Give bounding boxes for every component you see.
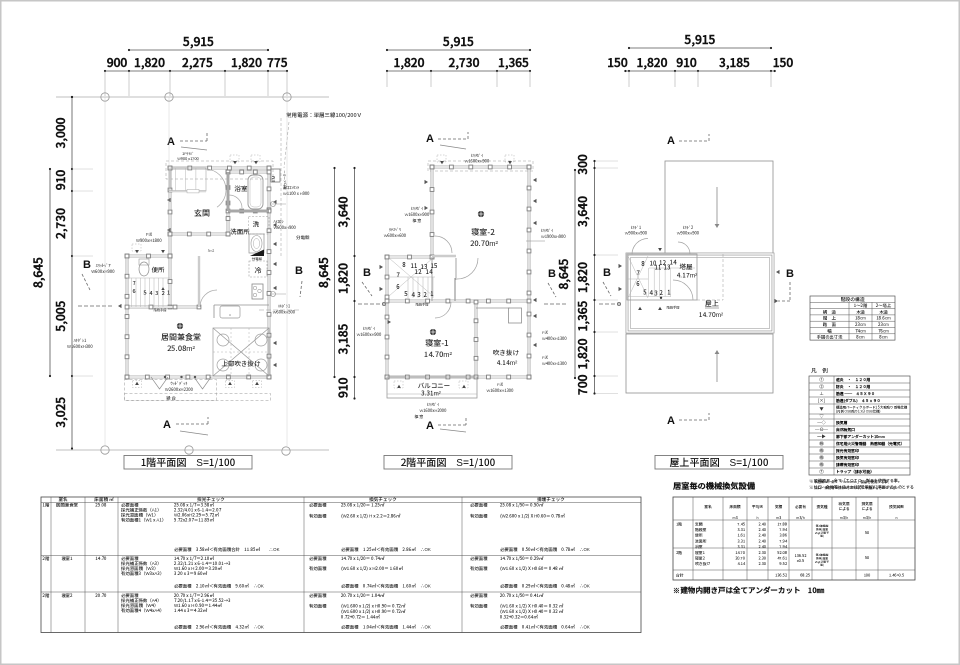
plan1 bath door arc bbox=[229, 195, 242, 208]
plan1 bath tub bbox=[248, 175, 263, 209]
svg-text:遮炎 ・ １２０用: 遮炎 ・ １２０用 bbox=[835, 377, 870, 383]
svg-text:8cm: 8cm bbox=[879, 335, 888, 341]
svg-text:必要面積: 必要面積 bbox=[470, 502, 488, 509]
svg-text:▲: ▲ bbox=[638, 306, 642, 312]
plan1 stair upper bbox=[170, 168, 206, 191]
svg-text:m3: m3 bbox=[732, 516, 737, 521]
svg-text:14.70m²: 14.70m² bbox=[699, 309, 724, 319]
svg-text:居室毎の機械換気設備: 居室毎の機械換気設備 bbox=[672, 480, 756, 492]
plan3 left dim stubs bbox=[596, 160, 619, 162]
svg-text:有効面積: 有効面積 bbox=[470, 604, 488, 610]
svg-text:6: 6 bbox=[636, 279, 640, 288]
svg-text:洗面所: 洗面所 bbox=[694, 538, 707, 544]
svg-text:必要面積 2.10㎡＜有効面積 9.60㎡ ∴OK: 必要面積 2.10㎡＜有効面積 9.60㎡ ∴OK bbox=[174, 583, 264, 590]
svg-text:B: B bbox=[548, 265, 556, 281]
svg-text:9.52: 9.52 bbox=[778, 562, 787, 567]
svg-text:20.70 x 1/20＝ 1.04㎡: 20.70 x 1/20＝ 1.04㎡ bbox=[340, 592, 385, 599]
svg-text:n: n bbox=[896, 516, 898, 521]
svg-text:2階: 2階 bbox=[42, 555, 51, 562]
svg-text:分電盤: 分電盤 bbox=[295, 234, 310, 241]
svg-text:3: 3 bbox=[417, 290, 420, 299]
svg-text:1,820: 1,820 bbox=[231, 54, 262, 71]
svg-text:8,645: 8,645 bbox=[315, 257, 332, 288]
svg-text:775: 775 bbox=[267, 54, 288, 71]
plan2 right dims bbox=[594, 161, 596, 394]
svg-text:m3: m3 bbox=[776, 516, 781, 521]
svg-text:必要面積 0.41㎡＜有効面積 0.64㎡ ∴OK: 必要面積 0.41㎡＜有効面積 0.64㎡ ∴OK bbox=[500, 624, 590, 631]
svg-text:浴室: 浴室 bbox=[694, 544, 703, 550]
plan3 dim row bbox=[625, 70, 774, 72]
svg-text:寝室-2: 寝室-2 bbox=[470, 227, 495, 238]
svg-text:①: ① bbox=[819, 377, 824, 383]
svg-text:W2600xH2200: W2600xH2200 bbox=[165, 387, 194, 393]
svg-text:必要面積 3.58㎡＜有効面積合計 11.85㎡ ∴OK: 必要面積 3.58㎡＜有効面積合計 11.85㎡ ∴OK bbox=[174, 546, 280, 553]
svg-text:3,000: 3,000 bbox=[52, 117, 69, 148]
svg-text:排煙有効窓印: 排煙有効窓印 bbox=[835, 462, 859, 468]
svg-text:W400xH1300: W400xH1300 bbox=[542, 361, 567, 367]
check table grid bbox=[41, 497, 641, 633]
plan3 deck outer wall bbox=[627, 254, 773, 332]
svg-text:2.30: 2.30 bbox=[758, 551, 766, 556]
svg-text:━▶: ━▶ bbox=[817, 434, 826, 440]
svg-text:4.17m²: 4.17m² bbox=[677, 270, 698, 280]
svg-text:910: 910 bbox=[335, 377, 352, 398]
plan1 south wall bbox=[127, 376, 269, 379]
svg-text:冷: 冷 bbox=[254, 266, 262, 276]
svg-text:W1600xH900: W1600xH900 bbox=[465, 159, 490, 165]
svg-text:W900xH900: W900xH900 bbox=[677, 231, 699, 237]
plan1 bath room bbox=[227, 172, 230, 234]
svg-text:による: による bbox=[861, 507, 872, 512]
svg-text:20.70m²: 20.70m² bbox=[470, 238, 499, 249]
svg-text:5,005: 5,005 bbox=[52, 300, 69, 332]
svg-text:②: ② bbox=[819, 384, 824, 390]
svg-text:1.44 x 3＝4.32㎡: 1.44 x 3＝4.32㎡ bbox=[174, 608, 208, 614]
svg-text:筋違 ── ４５Ｘ９０: 筋違 ── ４５Ｘ９０ bbox=[835, 391, 875, 397]
svg-text:必要面積 0.74㎡＜有効面積 1.60㎡ ∴OK: 必要面積 0.74㎡＜有効面積 1.60㎡ ∴OK bbox=[341, 583, 431, 590]
svg-text:有効面積: 有効面積 bbox=[470, 566, 488, 572]
plan3 dim 5,915 bbox=[629, 47, 771, 49]
svg-text:68.25: 68.25 bbox=[800, 574, 810, 579]
svg-text:7.94: 7.94 bbox=[779, 528, 787, 533]
svg-text:W1900xH900: W1900xH900 bbox=[541, 234, 566, 240]
svg-text:扉下部アンダーカット10mm: 扉下部アンダーカット10mm bbox=[835, 434, 886, 440]
svg-text:300: 300 bbox=[574, 154, 591, 175]
svg-text:屋上: 屋上 bbox=[705, 299, 719, 309]
svg-text:1,820: 1,820 bbox=[574, 338, 591, 369]
plan2 balcony bbox=[387, 377, 477, 398]
svg-text:階段手摺: 階段手摺 bbox=[667, 305, 681, 310]
svg-text:2.30: 2.30 bbox=[758, 557, 766, 562]
svg-text:必要面積: 必要面積 bbox=[470, 592, 488, 599]
svg-text:2,730: 2,730 bbox=[449, 54, 480, 71]
svg-text:8: 8 bbox=[402, 260, 406, 269]
svg-text:─⊖─: ─⊖─ bbox=[815, 427, 829, 433]
svg-text:x0.5: x0.5 bbox=[797, 559, 804, 564]
plan2 left dims bbox=[354, 168, 356, 399]
svg-text:必要面積: 必要面積 bbox=[309, 502, 327, 509]
svg-text:必要面積: 必要面積 bbox=[309, 555, 327, 562]
svg-text:8: 8 bbox=[641, 259, 645, 268]
plan2 north wall bbox=[432, 166, 529, 169]
svg-text:▼: ▼ bbox=[135, 249, 139, 255]
svg-text:▼: ▼ bbox=[819, 407, 824, 413]
plan1 toilet bbox=[139, 262, 149, 276]
plan1 EM box bbox=[271, 169, 280, 182]
svg-text:筋違(ダブル) ４５ｘ９０: 筋違(ダブル) ４５ｘ９０ bbox=[835, 398, 881, 404]
plan1 title bbox=[124, 456, 252, 470]
svg-text:必要面積: 必要面積 bbox=[309, 592, 327, 599]
plan2 right arrows bbox=[533, 178, 537, 182]
svg-text:W600xH600: W600xH600 bbox=[384, 233, 406, 239]
plan3 deck inner line bbox=[631, 258, 770, 329]
plan2 dim 8,645 left bbox=[334, 168, 336, 377]
svg-text:12: 12 bbox=[415, 267, 422, 276]
svg-text:吹き抜け: 吹き抜け bbox=[695, 561, 710, 567]
svg-text:4.14m²: 4.14m² bbox=[497, 357, 518, 367]
svg-text:A: A bbox=[667, 412, 675, 428]
svg-text:W600xH900: W600xH900 bbox=[274, 225, 296, 231]
svg-text:8,645: 8,645 bbox=[30, 257, 47, 288]
svg-text:(W2.600 x 1/2) X H0.60＝ 0.78㎡: (W2.600 x 1/2) X H0.60＝ 0.78㎡ bbox=[500, 513, 565, 520]
svg-text:(凡例 OSB貼り1:K3 OSB仕様): (凡例 OSB貼り1:K3 OSB仕様) bbox=[836, 408, 880, 413]
plan1 dim row 900/1820/2275/1820/775 bbox=[105, 70, 287, 72]
plan1 left dims bbox=[71, 97, 73, 449]
svg-text:㊒: ㊒ bbox=[819, 448, 824, 454]
svg-text:有効面積3（W3xA3）: 有効面積3（W3xA3） bbox=[121, 571, 164, 577]
svg-text:2階平面図 S=1/100: 2階平面図 S=1/100 bbox=[401, 454, 496, 469]
svg-text:▼: ▼ bbox=[440, 160, 444, 166]
svg-text:▲: ▲ bbox=[462, 384, 466, 390]
svg-text:150: 150 bbox=[607, 54, 628, 71]
plan2 dim drops bbox=[386, 71, 388, 87]
svg-text:必要有: 必要有 bbox=[794, 504, 806, 510]
svg-text:2.40: 2.40 bbox=[758, 534, 766, 539]
svg-text:5: 5 bbox=[403, 289, 407, 298]
svg-text:A: A bbox=[163, 416, 171, 432]
svg-text:910: 910 bbox=[676, 54, 697, 71]
svg-text:木造: 木造 bbox=[856, 309, 865, 315]
svg-text:25.08: 25.08 bbox=[94, 503, 107, 509]
svg-text:吹き抜け: 吹き抜け bbox=[493, 347, 520, 357]
svg-text:有効面積: 有効面積 bbox=[309, 566, 327, 572]
svg-text:7: 7 bbox=[132, 279, 135, 287]
svg-text:5,915: 5,915 bbox=[684, 31, 716, 48]
svg-text:▲: ▲ bbox=[161, 287, 165, 292]
svg-text:▲: ▲ bbox=[397, 384, 401, 390]
svg-text:床面積: 床面積 bbox=[728, 504, 740, 510]
svg-text:浴室: 浴室 bbox=[234, 183, 249, 193]
svg-text:25.08 x 1/50＝ 0.50㎡: 25.08 x 1/50＝ 0.50㎡ bbox=[499, 502, 544, 509]
svg-text:玄関: 玄関 bbox=[194, 208, 210, 219]
svg-text:2階: 2階 bbox=[676, 550, 682, 556]
svg-text:900: 900 bbox=[107, 54, 128, 71]
svg-text:7: 7 bbox=[636, 268, 640, 277]
svg-text:換気扇: 換気扇 bbox=[835, 420, 848, 426]
plan1 east wall bbox=[268, 168, 271, 377]
svg-text:0.72+0.72＝ 1.44㎡: 0.72+0.72＝ 1.44㎡ bbox=[341, 615, 380, 621]
svg-text:20.70: 20.70 bbox=[94, 593, 107, 599]
svg-text:㊒: ㊒ bbox=[819, 455, 824, 461]
plan2 west wall upper bbox=[431, 167, 434, 257]
svg-text:B: B bbox=[603, 264, 611, 280]
svg-text:1階: 1階 bbox=[676, 522, 682, 528]
svg-text:3: 3 bbox=[654, 289, 657, 298]
svg-text:6: 6 bbox=[132, 287, 135, 295]
plan2 dim row bbox=[387, 70, 530, 72]
plan2 south wall bbox=[387, 376, 529, 379]
svg-text:換気有効窓印: 換気有効窓印 bbox=[835, 455, 859, 461]
svg-text:▼: ▼ bbox=[508, 160, 512, 166]
svg-text:必要面積 0.50㎡＜有効面積 0.78㎡ ∴OK: 必要面積 0.50㎡＜有効面積 0.78㎡ ∴OK bbox=[500, 546, 590, 553]
svg-text:換気回数: 換気回数 bbox=[888, 504, 904, 510]
svg-text:─◇: ─◇ bbox=[817, 420, 826, 426]
svg-text:B: B bbox=[83, 256, 91, 272]
svg-text:25.08 x 1/20＝ 1.25㎡: 25.08 x 1/20＝ 1.25㎡ bbox=[340, 502, 385, 509]
svg-text:14: 14 bbox=[426, 267, 433, 276]
svg-text:※ 本居室は、全て「Panasonic」製品を使用する事,: ※ 本居室は、全て「Panasonic」製品を使用する事, bbox=[810, 479, 889, 484]
svg-text:1: 1 bbox=[667, 288, 670, 297]
svg-text:寝室2: 寝室2 bbox=[694, 557, 705, 562]
svg-text:※建物内開き戸は全てアンダーカット 10㎜: ※建物内開き戸は全てアンダーカット 10㎜ bbox=[673, 585, 825, 596]
plan1 bunden black triangle bbox=[250, 250, 264, 257]
svg-text:76cm: 76cm bbox=[878, 328, 889, 334]
plan3 tower door arcs bbox=[632, 239, 648, 255]
plan1 fridge bbox=[249, 261, 267, 277]
svg-text:寝室2: 寝室2 bbox=[61, 593, 72, 599]
svg-text:3.20 x 3＝9.60㎡: 3.20 x 3＝9.60㎡ bbox=[173, 571, 208, 577]
svg-text:1,820: 1,820 bbox=[134, 54, 165, 71]
svg-text:1,820: 1,820 bbox=[637, 54, 668, 71]
svg-text:構 造: 構 造 bbox=[822, 309, 837, 315]
svg-text:20.70 x 1/50＝ 0.41㎡: 20.70 x 1/50＝ 0.41㎡ bbox=[499, 592, 544, 599]
plan2 east wall bbox=[528, 167, 531, 377]
svg-text:13: 13 bbox=[664, 263, 671, 272]
svg-text:m3/h: m3/h bbox=[796, 516, 804, 521]
svg-text:▼: ▼ bbox=[658, 247, 662, 253]
svg-text:W600xH500: W600xH500 bbox=[273, 310, 295, 316]
svg-text:A: A bbox=[426, 130, 434, 146]
svg-text:W600xH900: W600xH900 bbox=[91, 269, 115, 275]
plan2 stair top wall bbox=[387, 256, 432, 259]
plan3 tower eave dashed bbox=[697, 299, 723, 301]
svg-text:100: 100 bbox=[864, 574, 871, 579]
svg-text:居間兼食堂: 居間兼食堂 bbox=[161, 332, 201, 343]
svg-text:階段の構造: 階段の構造 bbox=[841, 296, 866, 303]
svg-text:必要面積 0.29㎡＜有効面積 0.48㎡ ∴OK: 必要面積 0.29㎡＜有効面積 0.48㎡ ∴OK bbox=[500, 583, 590, 590]
svg-text:洗: 洗 bbox=[253, 219, 260, 229]
svg-text:m3/h: m3/h bbox=[840, 516, 848, 521]
svg-text:2,730: 2,730 bbox=[52, 208, 69, 239]
plan1 void box bbox=[213, 328, 269, 376]
plan2 dim 8,645 right bbox=[574, 170, 576, 378]
svg-text:4.14: 4.14 bbox=[737, 562, 745, 567]
svg-text:1: 1 bbox=[430, 289, 433, 298]
svg-text:寝室-1: 寝室-1 bbox=[424, 338, 449, 349]
plan1 genkan wall bbox=[170, 233, 228, 236]
svg-text:2,275: 2,275 bbox=[182, 54, 213, 71]
plan3 side arrows bbox=[619, 264, 623, 268]
plan3 upper roof bbox=[665, 161, 773, 254]
svg-text:5,915: 5,915 bbox=[442, 33, 474, 50]
svg-text:3.31: 3.31 bbox=[737, 528, 745, 533]
svg-text:4: 4 bbox=[649, 288, 653, 297]
svg-text:等): 等) bbox=[820, 563, 824, 567]
svg-text:W900xH900: W900xH900 bbox=[625, 231, 647, 237]
plan1 module grid verticals bbox=[104, 97, 106, 446]
svg-text:(W1.60 x 1/2) X H0.60＝ 0.48 ㎡: (W1.60 x 1/2) X H0.60＝ 0.48 ㎡ bbox=[500, 565, 564, 572]
svg-text:17.88: 17.88 bbox=[777, 523, 787, 528]
svg-text:150: 150 bbox=[773, 54, 794, 71]
svg-text:3.31: 3.31 bbox=[737, 545, 745, 550]
svg-text:トラップ（排水可能）: トラップ（排水可能） bbox=[836, 469, 874, 475]
svg-text:㊒: ㊒ bbox=[819, 462, 824, 468]
svg-text:3,025: 3,025 bbox=[52, 397, 69, 428]
plan1 north wall bbox=[170, 167, 269, 170]
svg-text:5: 5 bbox=[642, 288, 646, 297]
plan2 void wall bbox=[475, 302, 478, 377]
svg-text:室名: 室名 bbox=[704, 504, 712, 510]
svg-text:1: 1 bbox=[167, 289, 170, 297]
plan1 dim 8,645 bbox=[49, 169, 51, 376]
svg-text:1～2階: 1～2階 bbox=[854, 303, 868, 309]
svg-text:23cm: 23cm bbox=[854, 322, 866, 328]
svg-text:換気種: 換気種 bbox=[815, 504, 827, 510]
svg-text:踏 面: 踏 面 bbox=[823, 322, 836, 328]
svg-text:凡 例: 凡 例 bbox=[811, 367, 828, 375]
plan1 right arrows bbox=[273, 200, 277, 204]
plan1 eave dashed bbox=[166, 161, 273, 179]
svg-text:▲: ▲ bbox=[135, 381, 139, 387]
svg-text:等): 等) bbox=[820, 534, 824, 538]
svg-text:便所: 便所 bbox=[152, 264, 166, 274]
svg-text:A: A bbox=[667, 132, 675, 148]
svg-text:有効面積1（W1 x A1）: 有効面積1（W1 x A1） bbox=[121, 518, 166, 524]
svg-text:階段手摺: 階段手摺 bbox=[154, 307, 168, 312]
svg-text:23cm: 23cm bbox=[877, 322, 889, 328]
plan3 roof arrow up bbox=[716, 352, 718, 382]
svg-text:1,820: 1,820 bbox=[394, 54, 425, 71]
svg-text:1.61: 1.61 bbox=[737, 534, 745, 539]
svg-text:14.70 x 1/50＝ 0.29㎡: 14.70 x 1/50＝ 0.29㎡ bbox=[500, 555, 544, 562]
svg-text:必要面積 1.25㎡＜有効面積 2.86㎡ ∴OK: 必要面積 1.25㎡＜有効面積 2.86㎡ ∴OK bbox=[341, 546, 431, 553]
svg-text:2.40: 2.40 bbox=[758, 523, 766, 528]
svg-text:による: による bbox=[838, 507, 849, 512]
svg-text:木造: 木造 bbox=[879, 309, 888, 315]
svg-text:3: 3 bbox=[155, 289, 158, 297]
svg-text:4: 4 bbox=[411, 290, 415, 299]
plan3 roof arrow down bbox=[716, 187, 718, 226]
svg-text:1,820: 1,820 bbox=[574, 262, 591, 293]
svg-text:52.08: 52.08 bbox=[776, 551, 787, 556]
svg-text:50: 50 bbox=[864, 556, 869, 561]
svg-text:1.46>0.5: 1.46>0.5 bbox=[889, 574, 904, 579]
svg-text:2.40: 2.40 bbox=[758, 545, 766, 550]
svg-text:防炎 ・ １２０用: 防炎 ・ １２０用 bbox=[836, 384, 870, 390]
plan1 kitchen counter bbox=[214, 304, 269, 306]
svg-text:50: 50 bbox=[864, 531, 869, 536]
svg-text:1,365: 1,365 bbox=[498, 54, 529, 71]
svg-text:6: 6 bbox=[396, 282, 400, 291]
plan2 left arrows bbox=[425, 180, 429, 184]
svg-text:2.30: 2.30 bbox=[758, 562, 766, 567]
svg-text:5: 5 bbox=[143, 289, 146, 297]
svg-text:(W2.60 x 1/2) H x 2.2＝2.86㎡: (W2.60 x 1/2) H x 2.2＝2.86㎡ bbox=[341, 513, 401, 520]
svg-text:8,645: 8,645 bbox=[555, 258, 572, 289]
svg-text:W1600xH2000: W1600xH2000 bbox=[419, 408, 446, 414]
svg-text:1,820: 1,820 bbox=[335, 263, 352, 294]
svg-text:玄関: 玄関 bbox=[694, 523, 703, 528]
plan1 burner bbox=[252, 284, 263, 299]
svg-text:20.70: 20.70 bbox=[735, 557, 745, 562]
svg-text:14.70 x 1/20＝ 0.74㎡: 14.70 x 1/20＝ 0.74㎡ bbox=[341, 555, 385, 562]
svg-text:910: 910 bbox=[52, 170, 69, 191]
plan3 tower bbox=[627, 254, 697, 300]
svg-text:幅: 幅 bbox=[827, 328, 832, 334]
plan2 bed2 label bbox=[478, 211, 484, 217]
svg-text:25.08m²: 25.08m² bbox=[167, 343, 196, 354]
svg-text:1,365: 1,365 bbox=[574, 300, 591, 331]
svg-text:上部吹き抜け: 上部吹き抜け bbox=[222, 358, 262, 368]
svg-text:採光有効窓印: 採光有効窓印 bbox=[835, 448, 859, 454]
svg-text:B: B bbox=[363, 264, 371, 280]
svg-text:[×]: [×] bbox=[818, 398, 825, 404]
svg-text:2: 2 bbox=[423, 290, 427, 299]
svg-text:寝室1: 寝室1 bbox=[694, 551, 706, 556]
svg-text:必要面積 1.04㎡＜有効面積 1.44㎡ ∴OK: 必要面積 1.04㎡＜有効面積 1.44㎡ ∴OK bbox=[341, 624, 431, 631]
svg-text:W1600xH1300: W1600xH1300 bbox=[486, 388, 513, 394]
svg-text:有効面積4（W4xA4）: 有効面積4（W4xA4） bbox=[121, 608, 164, 614]
svg-text:18cm: 18cm bbox=[855, 316, 866, 322]
svg-text:7.94: 7.94 bbox=[779, 545, 787, 550]
svg-text:Ⓣ: Ⓣ bbox=[819, 469, 824, 475]
svg-text:2～塔上: 2～塔上 bbox=[875, 303, 892, 309]
plan1 dim 5,915 bbox=[129, 49, 268, 51]
svg-text:W1600xH900: W1600xH900 bbox=[357, 332, 382, 338]
svg-text:㊑: ㊑ bbox=[819, 441, 824, 447]
svg-text:47.61: 47.61 bbox=[777, 557, 788, 562]
plan1 living label bbox=[177, 323, 183, 329]
svg-text:框 窓: 框 窓 bbox=[412, 218, 422, 224]
svg-text:5,915: 5,915 bbox=[182, 33, 214, 50]
plan2 eave dashed bbox=[428, 161, 533, 171]
plan3 dim drops bbox=[628, 71, 630, 87]
svg-text:洗面所: 洗面所 bbox=[230, 226, 250, 236]
svg-text:2階: 2階 bbox=[42, 592, 51, 599]
svg-text:B: B bbox=[295, 262, 303, 278]
svg-text:3,185: 3,185 bbox=[335, 323, 352, 354]
plan1 top grid line bbox=[56, 96, 329, 98]
svg-text:▲: ▲ bbox=[255, 381, 259, 387]
plan1 left arrows bbox=[167, 198, 171, 202]
plan1 toilet block top wall bbox=[127, 255, 170, 258]
svg-text:B: B bbox=[786, 265, 794, 281]
plan1 entry door arc bbox=[205, 169, 226, 190]
svg-text:3.31: 3.31 bbox=[737, 539, 745, 544]
plan3 title bbox=[655, 456, 783, 470]
svg-text:11: 11 bbox=[655, 263, 662, 272]
svg-text:A: A bbox=[426, 417, 434, 433]
svg-text:5m2: 5m2 bbox=[207, 249, 215, 254]
svg-text:14: 14 bbox=[670, 258, 677, 267]
plan2 dim 5,915 bbox=[387, 49, 530, 51]
svg-text:常用電源：単層三線100/200Ｖ: 常用電源：単層三線100/200Ｖ bbox=[286, 111, 362, 119]
svg-text:必要面積: 必要面積 bbox=[470, 555, 488, 562]
svg-text:3.31m²: 3.31m² bbox=[420, 389, 441, 398]
svg-text:有効面積: 有効面積 bbox=[309, 604, 327, 610]
svg-text:3,640: 3,640 bbox=[335, 196, 352, 227]
svg-text:有効面積: 有効面積 bbox=[470, 514, 488, 520]
